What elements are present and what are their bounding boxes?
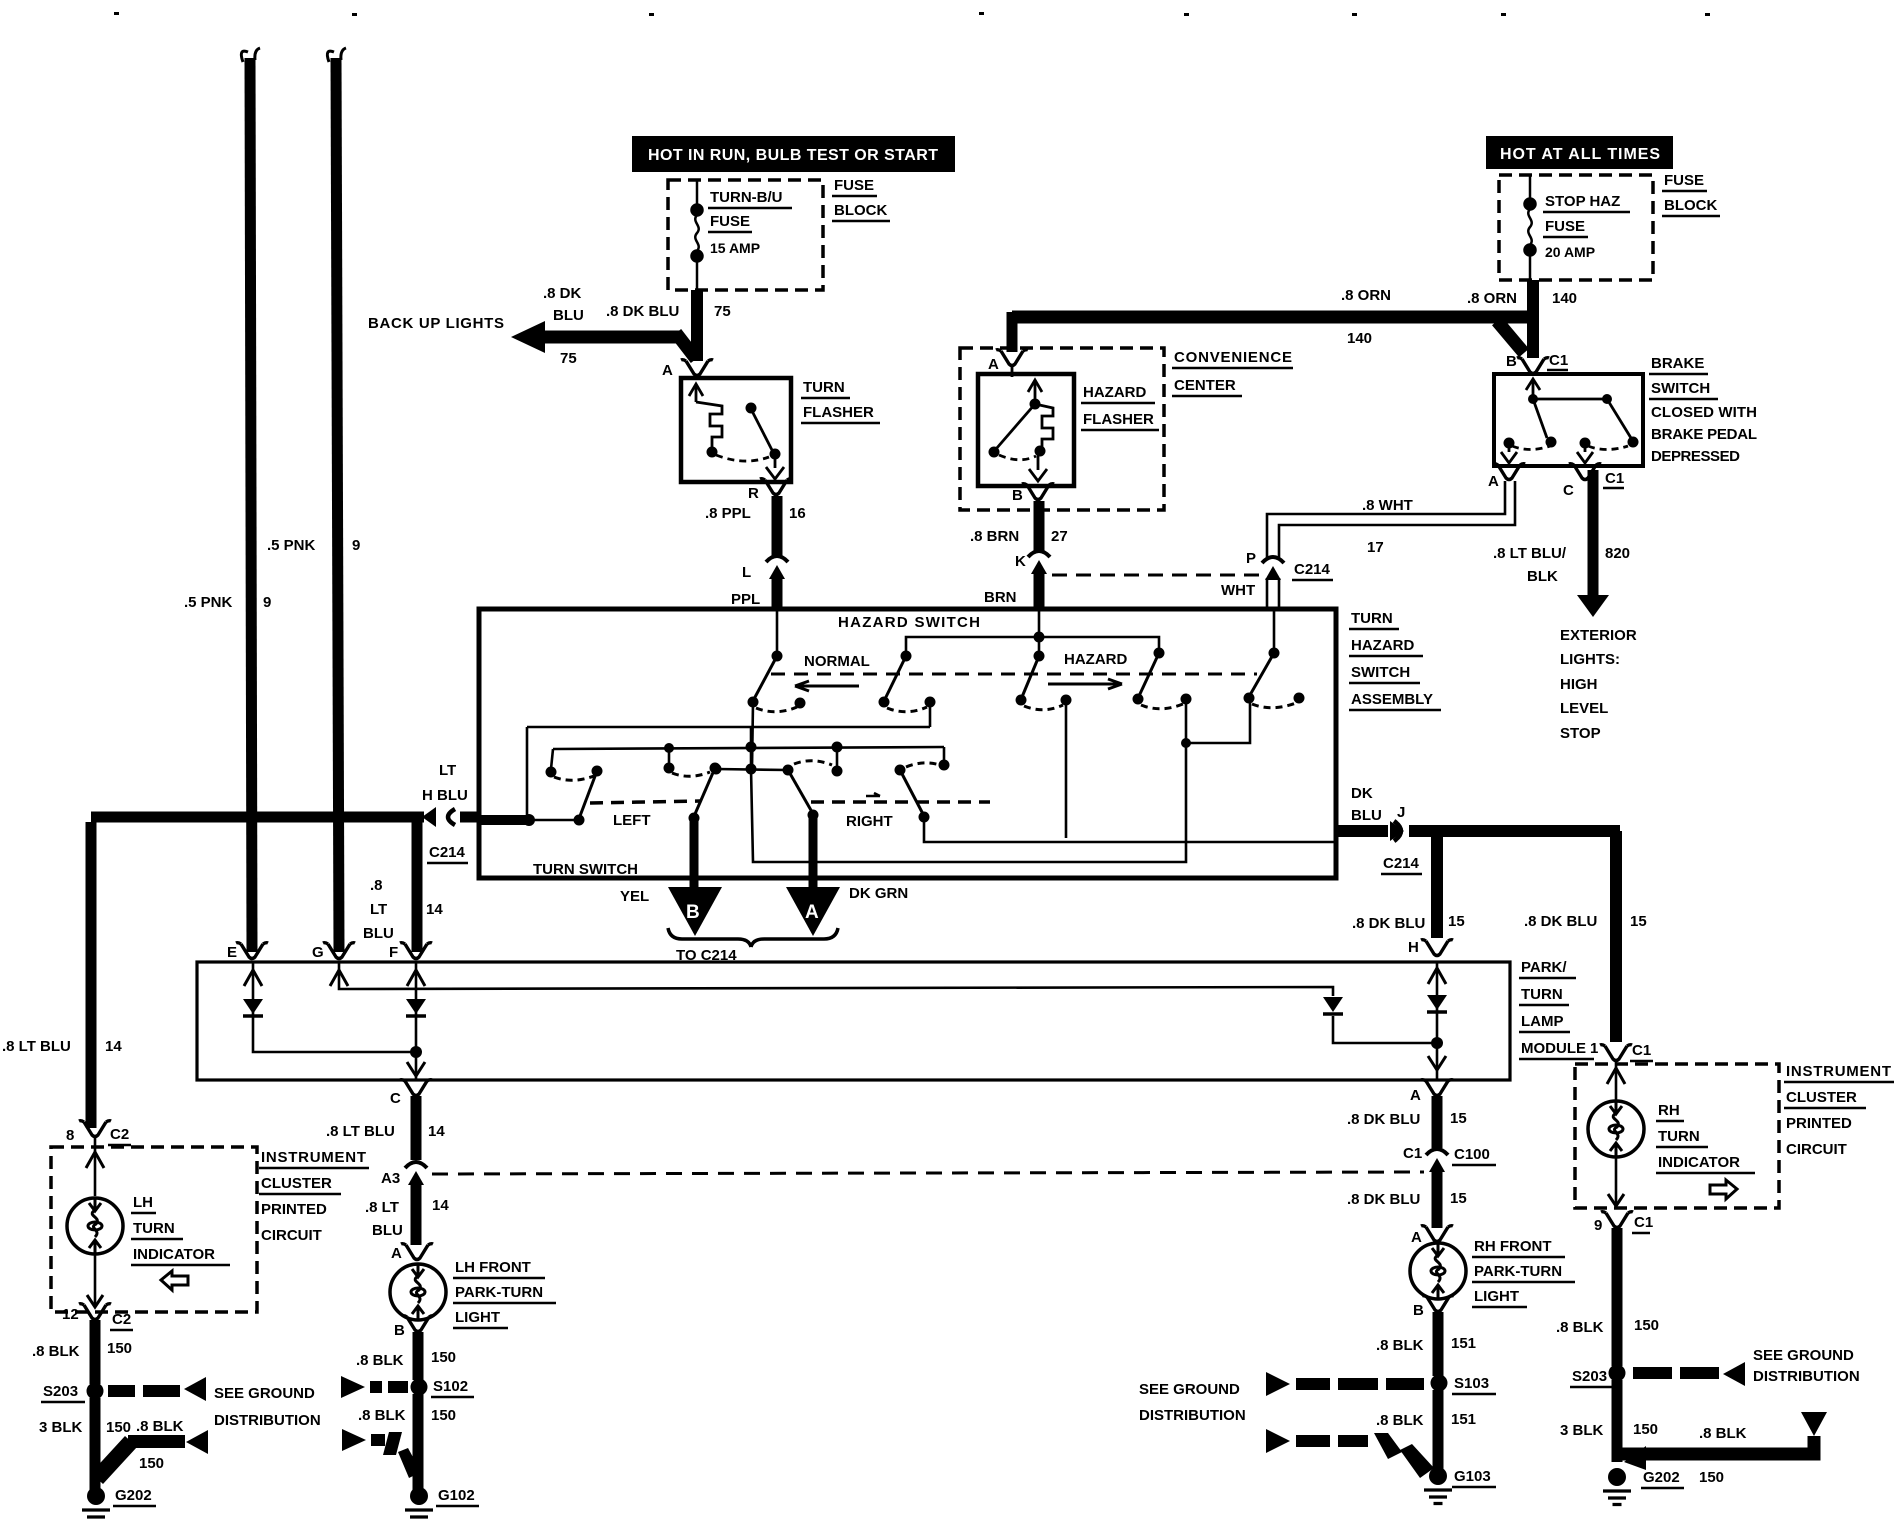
- svg-text:BLOCK: BLOCK: [1664, 197, 1717, 214]
- connector A3 C100: [405, 1162, 427, 1185]
- label .8 DK BLU 15 (right branch): [1524, 913, 1647, 930]
- splice S203 (right): [1609, 1365, 1626, 1382]
- hollow left arrow icon: [161, 1271, 188, 1290]
- splice S102: [411, 1379, 428, 1396]
- label TURN HAZARD SWITCH ASSEMBLY: [1349, 610, 1441, 710]
- svg-text:151: 151: [1451, 1335, 1476, 1352]
- svg-text:NORMAL: NORMAL: [804, 653, 870, 670]
- wire 3 BLK 150 down: [1612, 1380, 1623, 1462]
- svg-text:F: F: [389, 944, 398, 961]
- connector fork at A: [1493, 464, 1525, 480]
- connector fork at B: [1517, 358, 1549, 374]
- svg-text:LEVEL: LEVEL: [1560, 700, 1608, 717]
- svg-text:PARK-TURN: PARK-TURN: [455, 1284, 543, 1301]
- ground G102: [405, 1487, 433, 1520]
- svg-text:3 BLK: 3 BLK: [39, 1419, 83, 1436]
- label .8 DK BLU 75 (left of arrow): [543, 285, 584, 367]
- svg-text:14: 14: [432, 1197, 449, 1214]
- svg-text:.8 DK BLU: .8 DK BLU: [1352, 915, 1425, 932]
- svg-text:TURN SWITCH: TURN SWITCH: [533, 861, 638, 878]
- svg-text:BACK UP LIGHTS: BACK UP LIGHTS: [368, 315, 504, 332]
- label SEE GROUND DISTRIBUTION (right): [1753, 1347, 1860, 1385]
- connector A fork below module (RH): [1421, 1080, 1453, 1096]
- svg-text:C214: C214: [429, 844, 466, 861]
- turn switch pivot link down to hazard feed: [751, 743, 1186, 862]
- hazard switch arm 5 (WHT): [1244, 611, 1305, 708]
- label CONVENIENCE CENTER: [1172, 349, 1293, 396]
- svg-text:14: 14: [428, 1123, 445, 1140]
- label RIGHT with dashed detent and small arrow: [811, 800, 990, 804]
- RH instrument cluster dashed box: [1575, 1064, 1779, 1208]
- svg-text:C214: C214: [1294, 561, 1331, 578]
- connector R fork: [760, 479, 792, 495]
- label INSTRUMENT CLUSTER PRINTED CIRCUIT (RH): [1784, 1063, 1894, 1158]
- wire out of bulb to 12 C2: [94, 1254, 97, 1306]
- wire .8 DK BLU 75 to back up lights: [511, 321, 696, 359]
- svg-text:.8 ORN: .8 ORN: [1341, 287, 1391, 304]
- label INSTRUMENT CLUSTER PRINTED CIRCUIT (LH): [259, 1149, 369, 1244]
- svg-text:12: 12: [62, 1306, 79, 1323]
- svg-text:9: 9: [263, 594, 271, 611]
- connector A fork: [1421, 1226, 1453, 1242]
- svg-text:HOT AT ALL TIMES: HOT AT ALL TIMES: [1500, 146, 1660, 163]
- svg-text:.8 BRN: .8 BRN: [970, 528, 1019, 545]
- svg-text:BLK: BLK: [1527, 568, 1558, 585]
- svg-text:HIGH: HIGH: [1560, 676, 1598, 693]
- connector K C214: [1028, 551, 1050, 574]
- label LEFT with dashed detent: [590, 801, 700, 803]
- see ground dashes from S203: [108, 1377, 206, 1401]
- connector 12 C2: [79, 1304, 111, 1320]
- svg-text:HAZARD: HAZARD: [1064, 651, 1127, 668]
- svg-text:FUSE: FUSE: [1664, 172, 1704, 189]
- fuse TURN-B/U 15 AMP: [692, 180, 703, 290]
- label TURN FLASHER: [801, 379, 880, 423]
- splice S203 (left): [87, 1383, 104, 1400]
- svg-text:LH: LH: [133, 1194, 153, 1211]
- svg-text:G103: G103: [1454, 1468, 1491, 1485]
- svg-text:A: A: [805, 902, 819, 923]
- connector L C214: [766, 556, 788, 579]
- svg-text:.8 LT: .8 LT: [365, 1199, 399, 1216]
- svg-text:151: 151: [1451, 1411, 1476, 1428]
- svg-text:150: 150: [1699, 1469, 1724, 1486]
- connector G fork: [323, 943, 355, 959]
- svg-text:G: G: [312, 944, 324, 961]
- svg-text:STOP: STOP: [1560, 725, 1601, 742]
- svg-text:HAZARD: HAZARD: [1351, 637, 1414, 654]
- wire into RH turn indicator: [1607, 1062, 1625, 1100]
- svg-text:SEE GROUND: SEE GROUND: [1139, 1381, 1240, 1398]
- connector E fork: [236, 943, 268, 959]
- dashed line K to P (C214): [1052, 574, 1260, 577]
- wire .8 ORN 140 horizontal: [1012, 312, 1533, 353]
- turn switch arm L2 (YEL output): [672, 763, 721, 894]
- svg-text:PARK-TURN: PARK-TURN: [1474, 1263, 1562, 1280]
- wire .8 BRN 27: [1034, 501, 1045, 551]
- svg-text:FUSE: FUSE: [710, 213, 750, 230]
- svg-text:15: 15: [1448, 913, 1465, 930]
- svg-text:DK: DK: [1351, 785, 1373, 802]
- svg-text:150: 150: [106, 1419, 131, 1436]
- svg-text:LH FRONT: LH FRONT: [455, 1259, 531, 1276]
- connector C214 left (LT H BLU): [91, 807, 479, 827]
- svg-text:SEE GROUND: SEE GROUND: [1753, 1347, 1854, 1364]
- svg-text:BRAKE PEDAL: BRAKE PEDAL: [1651, 426, 1757, 443]
- svg-text:R: R: [748, 485, 759, 502]
- label .8 ORN 140 (mid): [1341, 287, 1391, 347]
- svg-text:C2: C2: [110, 1126, 129, 1143]
- wire .8 LT BLU 14 C to A3: [411, 1096, 422, 1160]
- svg-text:C214: C214: [1383, 855, 1420, 872]
- svg-text:C2: C2: [112, 1311, 131, 1328]
- svg-text:B: B: [1506, 353, 1517, 370]
- ground G103: [1424, 1467, 1452, 1504]
- svg-text:.8 BLK: .8 BLK: [356, 1352, 404, 1369]
- svg-text:.8 PPL: .8 PPL: [705, 505, 751, 522]
- connector J C214 (DK BLU right): [1336, 821, 1620, 841]
- connector 9 C1: [1601, 1212, 1633, 1228]
- svg-text:MODULE: MODULE: [1521, 1040, 1586, 1057]
- svg-text:S102: S102: [433, 1378, 468, 1395]
- svg-text:BLU: BLU: [553, 307, 584, 324]
- svg-text:14: 14: [105, 1038, 122, 1055]
- svg-text:CIRCUIT: CIRCUIT: [1786, 1141, 1847, 1158]
- svg-text:LT: LT: [439, 762, 456, 779]
- svg-text:.8 LT BLU: .8 LT BLU: [326, 1123, 395, 1140]
- svg-text:DISTRIBUTION: DISTRIBUTION: [1139, 1407, 1246, 1424]
- wire .8 LT BLU/BLK 820 with down arrow: [1577, 470, 1609, 617]
- svg-text:EXTERIOR: EXTERIOR: [1560, 627, 1637, 644]
- svg-text:CLUSTER: CLUSTER: [1786, 1089, 1857, 1106]
- LH instrument cluster dashed box: [51, 1147, 257, 1312]
- svg-text:BLU: BLU: [1351, 807, 1382, 824]
- connector fork at C: [1569, 464, 1601, 480]
- svg-text:9: 9: [352, 537, 360, 554]
- connector A fork: [681, 360, 713, 376]
- hazard flasher box: [978, 374, 1074, 486]
- svg-text:C100: C100: [1454, 1146, 1490, 1163]
- hazard row detent dashed line: [771, 673, 1257, 676]
- svg-text:B: B: [686, 902, 700, 923]
- wire LT BLU down to F branch: [412, 813, 423, 952]
- svg-text:17: 17: [1367, 539, 1384, 556]
- svg-text:B: B: [1413, 1302, 1424, 1319]
- svg-text:B: B: [1012, 487, 1023, 504]
- svg-text:PRINTED: PRINTED: [1786, 1115, 1852, 1132]
- label .8 DK BLU 75 (right): [606, 303, 731, 320]
- svg-text:.8: .8: [370, 877, 383, 894]
- svg-text:H BLU: H BLU: [422, 787, 468, 804]
- svg-text:15: 15: [1630, 913, 1647, 930]
- wire .8 BLK 150 to G102: [413, 1394, 424, 1490]
- svg-text:16: 16: [789, 505, 806, 522]
- svg-text:WHT: WHT: [1221, 582, 1255, 599]
- rail stubs and dots: [546, 727, 950, 778]
- svg-text:A: A: [662, 362, 673, 379]
- svg-text:G202: G202: [115, 1487, 152, 1504]
- svg-text:RH FRONT: RH FRONT: [1474, 1238, 1552, 1255]
- svg-text:.8 BLK: .8 BLK: [32, 1343, 80, 1360]
- svg-text:PPL: PPL: [731, 591, 760, 608]
- svg-text:BRAKE: BRAKE: [1651, 355, 1704, 372]
- svg-text:1: 1: [1590, 1040, 1598, 1057]
- see ground arrow into S103: [1266, 1372, 1424, 1396]
- svg-text:E: E: [227, 944, 237, 961]
- svg-text:27: 27: [1051, 528, 1068, 545]
- convenience center dashed box: [960, 348, 1164, 510]
- fuse STOP HAZ 20 AMP: [1525, 175, 1536, 280]
- label .8 DK BLU 15 (H branch): [1352, 913, 1465, 932]
- hazard switch arm 2: [879, 637, 1040, 727]
- label FUSE BLOCK (right): [1662, 172, 1720, 216]
- label EXTERIOR LIGHTS: HIGH LEVEL STOP: [1560, 627, 1637, 742]
- wire .8 BLK 150 to S102: [413, 1332, 424, 1380]
- hazard flasher internals: [989, 366, 1054, 481]
- turn switch arm L1: [554, 766, 603, 817]
- svg-text:BLU: BLU: [363, 925, 394, 942]
- label LH TURN INDICATOR: [131, 1194, 230, 1265]
- wire out of bulb down: [1615, 1157, 1618, 1206]
- svg-text:14: 14: [426, 901, 443, 918]
- wire .8 LT BLU 14 from switch to cluster: [86, 822, 97, 1128]
- module box: [197, 962, 1510, 1080]
- svg-text:150: 150: [139, 1455, 164, 1472]
- svg-text:DISTRIBUTION: DISTRIBUTION: [214, 1412, 321, 1429]
- svg-text:.8 BLK: .8 BLK: [1376, 1412, 1424, 1429]
- connector F fork: [400, 943, 432, 959]
- svg-text:140: 140: [1347, 330, 1372, 347]
- svg-text:INSTRUMENT: INSTRUMENT: [261, 1149, 366, 1166]
- label PARK/TURN LAMP MODULE: [1519, 959, 1594, 1059]
- label HAZARD FLASHER: [1081, 384, 1159, 430]
- svg-text:HOT IN RUN, BULB TEST OR START: HOT IN RUN, BULB TEST OR START: [648, 147, 938, 164]
- DK GRN output triangle A: [786, 885, 908, 936]
- svg-text:B: B: [394, 1322, 405, 1339]
- svg-text:LIGHTS:: LIGHTS:: [1560, 651, 1620, 668]
- svg-text:RIGHT: RIGHT: [846, 813, 893, 830]
- svg-text:A: A: [1411, 1229, 1422, 1246]
- svg-text:G202: G202: [1643, 1469, 1680, 1486]
- svg-text:20 AMP: 20 AMP: [1545, 244, 1595, 260]
- svg-text:A: A: [1410, 1087, 1421, 1104]
- banner HOT IN RUN, BULB TEST OR START: [632, 136, 955, 172]
- svg-text:LAMP: LAMP: [1521, 1013, 1564, 1030]
- svg-text:.8 LT BLU/: .8 LT BLU/: [1493, 545, 1567, 562]
- svg-text:150: 150: [431, 1407, 456, 1424]
- svg-text:BLOCK: BLOCK: [834, 202, 887, 219]
- svg-text:C1: C1: [1632, 1042, 1651, 1059]
- wire DK BLU right down to 1 C1: [1610, 831, 1622, 1042]
- svg-text:.8 DK BLU: .8 DK BLU: [606, 303, 679, 320]
- svg-text:TURN: TURN: [1521, 986, 1563, 1003]
- see ground dashes from S203 right: [1633, 1362, 1745, 1386]
- connector B fork: [402, 1316, 434, 1332]
- svg-text:FLASHER: FLASHER: [1083, 411, 1154, 428]
- ground G202 (right): [1603, 1468, 1631, 1505]
- svg-text:PARK/: PARK/: [1521, 959, 1567, 976]
- svg-text:C: C: [1563, 482, 1574, 499]
- turn switch rail upper: [527, 726, 930, 729]
- svg-text:SWITCH: SWITCH: [1651, 380, 1710, 397]
- svg-text:S203: S203: [1572, 1368, 1607, 1385]
- turn switch center arm R1 (DK GRN output): [711, 761, 833, 893]
- wire 3 BLK 150 to G202: [90, 1398, 101, 1490]
- svg-text:A3: A3: [381, 1170, 400, 1187]
- svg-text:.8 DK: .8 DK: [543, 285, 582, 302]
- svg-text:BLU: BLU: [372, 1222, 403, 1239]
- svg-text:INSTRUMENT: INSTRUMENT: [1786, 1063, 1891, 1080]
- svg-text:.8 BLK: .8 BLK: [358, 1407, 406, 1424]
- module internal G branch wire to RH diode: [330, 962, 1437, 1043]
- svg-text:S203: S203: [43, 1383, 78, 1400]
- svg-text:STOP HAZ: STOP HAZ: [1545, 193, 1620, 210]
- module internal F branch: arrow + diode: [406, 962, 426, 1080]
- label .8 ORN 140 (at fuse): [1467, 290, 1577, 307]
- svg-text:BRN: BRN: [984, 589, 1017, 606]
- svg-text:150: 150: [107, 1340, 132, 1357]
- label B / C1: [1506, 352, 1568, 370]
- svg-text:.5 PNK: .5 PNK: [267, 537, 316, 554]
- module internal H branch: arrow + diode: [1427, 962, 1447, 1080]
- svg-text:S103: S103: [1454, 1375, 1489, 1392]
- LH turn indicator bulb: [67, 1198, 123, 1254]
- connector H fork: [1421, 940, 1453, 956]
- svg-text:.8 DK BLU: .8 DK BLU: [1524, 913, 1597, 930]
- wire PPL into switch: [772, 578, 783, 610]
- svg-text:H: H: [1408, 939, 1419, 956]
- switch assembly box: [479, 609, 1336, 878]
- hazard switch arm 1 (PPL): [748, 611, 806, 768]
- svg-text:A: A: [988, 356, 999, 373]
- fuse block dashed box (left): [668, 180, 823, 290]
- svg-text:C1: C1: [1634, 1214, 1653, 1231]
- wire .8 BLK 150 to S203 right: [1612, 1228, 1623, 1366]
- svg-text:LT: LT: [370, 901, 387, 918]
- wire .8 BLK 151 to S103: [1433, 1312, 1444, 1376]
- svg-text:INDICATOR: INDICATOR: [1658, 1154, 1740, 1171]
- svg-text:TURN: TURN: [1658, 1128, 1700, 1145]
- wire .8 DK BLU 15 A to C100: [1432, 1096, 1443, 1148]
- svg-text:DISTRIBUTION: DISTRIBUTION: [1753, 1368, 1860, 1385]
- svg-text:CONVENIENCE: CONVENIENCE: [1174, 349, 1292, 366]
- label LH FRONT PARK-TURN LIGHT: [453, 1259, 556, 1328]
- label .5 PNK 9 (upper): [267, 537, 360, 554]
- turn flasher internals: [689, 384, 784, 479]
- svg-text:SEE GROUND: SEE GROUND: [214, 1385, 315, 1402]
- svg-text:FUSE: FUSE: [1545, 218, 1585, 235]
- hazard switch arm 3 (BRN): [1016, 611, 1072, 838]
- wire .5 PNK 9 (right vertical to G): [327, 48, 346, 952]
- label RH FRONT PARK-TURN LIGHT: [1472, 1238, 1575, 1307]
- svg-text:PRINTED: PRINTED: [261, 1201, 327, 1218]
- svg-text:75: 75: [714, 303, 731, 320]
- svg-text:3 BLK: 3 BLK: [1560, 1422, 1604, 1439]
- svg-text:150: 150: [431, 1349, 456, 1366]
- wire .8 DK BLU 15 C100 to light: [1432, 1171, 1443, 1228]
- dashed line A3 to C100: [432, 1172, 1424, 1174]
- banner HOT AT ALL TIMES: [1486, 136, 1673, 169]
- svg-text:YEL: YEL: [620, 888, 649, 905]
- svg-text:DK GRN: DK GRN: [849, 885, 908, 902]
- svg-text:150: 150: [1634, 1317, 1659, 1334]
- RH turn indicator bulb: [1588, 1101, 1644, 1157]
- label RH TURN INDICATOR: [1656, 1102, 1755, 1173]
- connector 1 C1: [1600, 1045, 1632, 1061]
- svg-text:CLUSTER: CLUSTER: [261, 1175, 332, 1192]
- connector A fork (hazard flasher): [996, 350, 1028, 366]
- wire .8 BLK 150 horizontal from right: [1620, 1412, 1827, 1470]
- svg-text:TURN: TURN: [803, 379, 845, 396]
- connector C fork below module: [400, 1080, 432, 1096]
- svg-text:HAZARD SWITCH: HAZARD SWITCH: [838, 614, 980, 631]
- svg-text:.8 DK BLU: .8 DK BLU: [1347, 1191, 1420, 1208]
- splice S103: [1431, 1375, 1448, 1392]
- svg-text:140: 140: [1552, 290, 1577, 307]
- module internal E branch: arrow + diode: [243, 962, 414, 1052]
- svg-text:.8 ORN: .8 ORN: [1467, 290, 1517, 307]
- branch .8 BLK 150 with arrow: [91, 1430, 208, 1484]
- svg-text:INDICATOR: INDICATOR: [133, 1246, 215, 1263]
- brake switch internals: [1501, 379, 1639, 463]
- svg-text:P: P: [1246, 550, 1256, 567]
- LT H BLU feed wire into turn switch: [479, 727, 585, 826]
- svg-text:A: A: [391, 1245, 402, 1262]
- svg-text:15 AMP: 15 AMP: [710, 240, 760, 256]
- wire .8 BLK 150 to S203: [90, 1320, 101, 1384]
- svg-text:TURN: TURN: [133, 1220, 175, 1237]
- label SEE GROUND DISTRIBUTION (center): [1139, 1381, 1246, 1424]
- see ground arrow into G102 wire: [342, 1429, 421, 1478]
- svg-text:FUSE: FUSE: [834, 177, 874, 194]
- wire .8 BLK 151 to G103: [1433, 1390, 1444, 1470]
- svg-text:LIGHT: LIGHT: [1474, 1288, 1519, 1305]
- svg-text:.8 BLK: .8 BLK: [136, 1418, 184, 1435]
- wire .5 PNK 9 (left vertical to E): [241, 48, 260, 952]
- label BRAKE SWITCH CLOSED WITH BRAKE PEDAL DEPRESSED: [1649, 355, 1757, 465]
- fuse block dashed box (right): [1499, 175, 1653, 280]
- svg-text:.8 BLK: .8 BLK: [1556, 1319, 1604, 1336]
- wire BRN into switch: [1034, 573, 1045, 610]
- svg-text:HAZARD: HAZARD: [1083, 384, 1146, 401]
- svg-text:.8 BLK: .8 BLK: [1376, 1337, 1424, 1354]
- svg-text:8: 8: [66, 1127, 74, 1144]
- svg-text:9: 9: [1594, 1217, 1602, 1234]
- wire .8 ORN 140 from fuse to brake switch: [1527, 280, 1539, 358]
- svg-text:75: 75: [560, 350, 577, 367]
- wire into LH turn indicator: [86, 1138, 104, 1196]
- svg-text:L: L: [742, 564, 751, 581]
- connector P C214: [1262, 557, 1284, 580]
- connector B fork (hazard flasher): [1022, 484, 1054, 500]
- wire .8 WHT 17 (hollow drawn wire): [1267, 481, 1515, 558]
- wire .8 LT BLU 14 A3 to light: [411, 1184, 422, 1245]
- svg-text:TURN: TURN: [1351, 610, 1393, 627]
- svg-text:DEPRESSED: DEPRESSED: [1651, 448, 1740, 465]
- hollow right arrow icon: [1710, 1180, 1737, 1199]
- connector A fork: [401, 1244, 433, 1260]
- svg-text:C1: C1: [1605, 470, 1624, 487]
- svg-text:ASSEMBLY: ASSEMBLY: [1351, 691, 1433, 708]
- connector B fork: [1422, 1296, 1454, 1312]
- brace TO C214: [668, 928, 838, 947]
- svg-text:C1: C1: [1549, 352, 1568, 369]
- wire .8 PPL 16: [772, 496, 783, 556]
- svg-text:A: A: [1488, 473, 1499, 490]
- svg-text:15: 15: [1450, 1190, 1467, 1207]
- hazard switch arm 4: [1039, 637, 1192, 709]
- svg-text:15: 15: [1450, 1110, 1467, 1127]
